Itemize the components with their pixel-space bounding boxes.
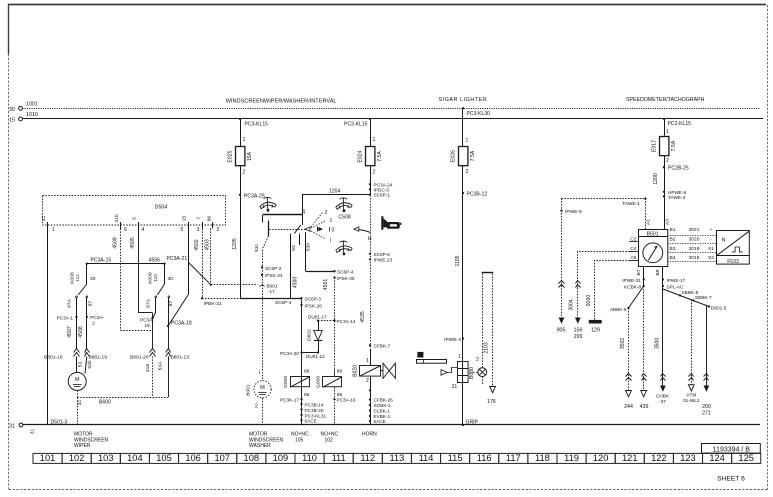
node SC6P-3 xyxy=(300,297,302,299)
svg-text:31: 31 xyxy=(30,429,36,435)
wire 439 xyxy=(643,286,645,391)
fuse E025 15A xyxy=(236,147,245,166)
svg-text:PC2-KL15: PC2-KL15 xyxy=(668,121,692,127)
pivot arrow xyxy=(305,227,310,231)
wire bus30 to fuse E026 xyxy=(462,107,464,109)
wire B9 down xyxy=(662,267,664,290)
wire IPWE-5 xyxy=(561,199,563,318)
svg-text:PC3A-25: PC3A-25 xyxy=(244,193,265,199)
svg-text:B801-20: B801-20 xyxy=(130,355,149,361)
wire to ABBK-6 xyxy=(629,286,644,308)
svg-text:G008: G008 xyxy=(316,376,322,388)
node PC3K-17 xyxy=(300,398,302,400)
svg-text:106: 106 xyxy=(185,453,201,463)
node PC3A-19 xyxy=(151,317,153,319)
wire 4535 xyxy=(370,195,372,360)
svg-text:15: 15 xyxy=(181,216,187,222)
svg-text:7.5A: 7.5A xyxy=(470,150,476,161)
svg-text:102: 102 xyxy=(325,437,334,443)
svg-text:A1: A1 xyxy=(645,219,651,225)
node PC3A-16 xyxy=(333,398,335,400)
svg-text:113: 113 xyxy=(389,453,404,463)
svg-text:116: 116 xyxy=(477,453,492,463)
switch frame xyxy=(302,195,304,225)
svg-text:D501-3: D501-3 xyxy=(51,419,68,425)
svg-text:K009: K009 xyxy=(147,272,153,284)
wire C4 to connector xyxy=(578,252,639,289)
svg-text:53b: 53b xyxy=(305,243,311,251)
fuse E026 7.5A xyxy=(459,147,468,166)
svg-text:D504: D504 xyxy=(155,204,168,210)
svg-text:123: 123 xyxy=(680,453,696,463)
svg-text:120: 120 xyxy=(593,453,609,463)
svg-text:1105: 1105 xyxy=(455,255,461,266)
svg-text:31b: 31b xyxy=(114,214,120,222)
wire 53A xyxy=(168,357,170,398)
wire 318 xyxy=(152,357,154,398)
switch position rays xyxy=(311,213,323,228)
svg-text:IPBK-31: IPBK-31 xyxy=(204,301,222,307)
wire 4505 xyxy=(138,229,140,313)
wire 4508 xyxy=(86,317,88,349)
svg-text:TAWE-3: TAWE-3 xyxy=(668,195,686,200)
svg-text:PC3-KL30: PC3-KL30 xyxy=(467,111,491,117)
connector B801-18 xyxy=(74,349,80,353)
ejector contact symbol xyxy=(441,370,447,376)
wire G008 down xyxy=(334,370,336,378)
svg-text:3020: 3020 xyxy=(689,237,700,243)
svg-text:111: 111 xyxy=(332,453,346,463)
svg-text:01-WL2: 01-WL2 xyxy=(683,398,700,403)
node TAWE-3 xyxy=(663,195,665,197)
svg-text:119: 119 xyxy=(564,453,579,463)
svg-text:109: 109 xyxy=(273,453,289,463)
svg-text:4509: 4509 xyxy=(112,237,118,248)
node PC3A-24 xyxy=(369,183,371,185)
svg-text:C4: C4 xyxy=(630,246,637,252)
svg-text:118: 118 xyxy=(535,453,550,463)
svg-text:CLBK-1: CLBK-1 xyxy=(374,409,391,414)
node PC3A-25 wiper icon xyxy=(260,197,276,209)
svg-text:PC3B-12: PC3B-12 xyxy=(467,191,488,197)
svg-text:6: 6 xyxy=(124,227,127,233)
svg-text:2: 2 xyxy=(217,227,220,233)
svg-text:4: 4 xyxy=(142,227,145,233)
svg-text:SC6P-6: SC6P-6 xyxy=(374,252,391,257)
svg-text:KCBK-8: KCBK-8 xyxy=(624,285,641,290)
svg-text:B600: B600 xyxy=(99,400,111,406)
svg-text:B001: B001 xyxy=(245,384,251,396)
svg-text:86: 86 xyxy=(337,369,343,375)
svg-text:S1: S1 xyxy=(708,246,714,252)
svg-text:1: 1 xyxy=(366,358,369,364)
wire bus15 to fuse E025 xyxy=(239,118,241,120)
wire 2103 arrow 176 xyxy=(490,387,496,393)
svg-text:B020: B020 xyxy=(352,365,358,377)
node 30 terminal xyxy=(19,106,23,110)
wire 1204 xyxy=(302,194,370,196)
wire 4503 horizontal xyxy=(211,284,258,286)
svg-text:31: 31 xyxy=(41,216,47,222)
svg-text:IPWE-31: IPWE-31 xyxy=(622,278,641,283)
svg-text:-37: -37 xyxy=(659,399,666,404)
fuse E024 7.5A xyxy=(366,147,375,166)
svg-text:GRIP: GRIP xyxy=(466,419,479,425)
svg-text:1001: 1001 xyxy=(26,102,38,108)
wiper icon C508 xyxy=(336,198,352,210)
wire B801-20 feed xyxy=(152,313,154,349)
fuse E017 7.5A xyxy=(660,137,669,156)
svg-text:IPSK-30: IPSK-30 xyxy=(337,276,355,281)
svg-text:3021: 3021 xyxy=(689,227,700,233)
svg-text:M: M xyxy=(75,377,80,383)
svg-text:9100: 9100 xyxy=(586,295,592,306)
svg-text:M: M xyxy=(260,385,265,391)
svg-text:87A: 87A xyxy=(146,298,152,307)
position arrow filled xyxy=(317,227,319,232)
svg-text:E017: E017 xyxy=(652,140,658,152)
speedometer B501 xyxy=(639,230,668,267)
svg-text:103: 103 xyxy=(98,453,114,463)
svg-text:DU01-12: DU01-12 xyxy=(306,354,325,359)
svg-text:244: 244 xyxy=(624,404,633,410)
node DU01-12 xyxy=(302,352,319,354)
svg-text:2: 2 xyxy=(476,357,479,363)
interval unit D504 xyxy=(43,196,226,226)
svg-text:B801-18: B801-18 xyxy=(44,355,63,361)
node 31 terminal xyxy=(19,423,23,427)
node SC6P-6 xyxy=(369,253,371,255)
svg-text:85: 85 xyxy=(304,392,310,398)
node IPDC-3 xyxy=(369,188,371,190)
wire dashed to pivot xyxy=(269,229,305,231)
svg-text:31: 31 xyxy=(452,384,458,390)
svg-text:IPSK-33: IPSK-33 xyxy=(265,273,283,278)
svg-text:N: N xyxy=(722,238,726,244)
wire motor to B600 xyxy=(77,390,79,397)
svg-text:110: 110 xyxy=(302,453,317,463)
svg-text:B801-13: B801-13 xyxy=(171,355,190,361)
svg-text:B7: B7 xyxy=(636,269,642,275)
svg-text:PC3A-20: PC3A-20 xyxy=(280,351,299,356)
node PC3A-2 xyxy=(86,316,88,318)
wire VTM xyxy=(691,300,693,391)
lamp in lighter xyxy=(478,368,487,377)
wiper icon lower xyxy=(336,241,352,253)
svg-text:IPWE-17: IPWE-17 xyxy=(667,278,686,283)
node CFBK-26 junction group xyxy=(369,389,371,391)
svg-text:112: 112 xyxy=(360,453,375,463)
wire pin5 to 4503 xyxy=(188,262,211,285)
wire 53b output xyxy=(305,232,307,271)
svg-text:PC2B-25: PC2B-25 xyxy=(668,166,689,172)
svg-text:3502: 3502 xyxy=(620,338,626,349)
svg-text:15: 15 xyxy=(9,118,15,124)
wire 1001 bus 30 xyxy=(22,108,760,110)
svg-text:2: 2 xyxy=(243,170,246,176)
svg-text:PC3A-16: PC3A-16 xyxy=(337,398,356,403)
svg-text:SIGAR LIGHTER: SIGAR LIGHTER xyxy=(439,97,488,103)
svg-text:1: 1 xyxy=(466,138,469,144)
svg-text:6ACE: 6ACE xyxy=(374,419,386,424)
sensor F533 xyxy=(717,231,750,265)
connector B801-19 xyxy=(85,349,90,353)
wire 3004 xyxy=(577,288,579,318)
svg-text:108: 108 xyxy=(244,453,260,463)
svg-text:1: 1 xyxy=(458,354,461,360)
wire B600 xyxy=(77,397,168,399)
svg-text:SC6P-3: SC6P-3 xyxy=(305,296,322,301)
node IPSK-20 xyxy=(300,304,302,306)
svg-text:CFBK-7: CFBK-7 xyxy=(374,344,391,349)
wire PC3A-15 node xyxy=(87,263,165,265)
svg-text:2103: 2103 xyxy=(484,342,490,353)
wire to SC6P-4 xyxy=(306,271,335,273)
svg-text:15: 15 xyxy=(301,209,307,215)
wire TAWE-1 dashed xyxy=(562,198,646,200)
svg-text:124: 124 xyxy=(709,453,725,463)
svg-text:B001: B001 xyxy=(267,283,278,288)
svg-text:122: 122 xyxy=(651,453,667,463)
svg-text:86: 86 xyxy=(206,216,212,222)
svg-text:2: 2 xyxy=(255,404,258,410)
pin 5 of D504 xyxy=(188,222,190,229)
svg-text:VTM: VTM xyxy=(686,393,696,398)
wire 200 xyxy=(706,306,708,386)
ground 129 xyxy=(589,320,602,324)
svg-text:B3: B3 xyxy=(670,246,676,252)
node PC3A-25 xyxy=(239,194,241,196)
svg-text:-17: -17 xyxy=(268,289,275,294)
svg-text:PC3K-17: PC3K-17 xyxy=(280,398,299,403)
wire output mid xyxy=(299,234,301,245)
svg-text:129: 129 xyxy=(591,328,600,334)
svg-text:4501: 4501 xyxy=(323,279,329,290)
wire 4509 xyxy=(120,229,122,331)
node SC6P-2 xyxy=(261,266,263,268)
svg-text:200: 200 xyxy=(702,404,711,410)
wire 3500 xyxy=(662,289,664,386)
svg-text:53b: 53b xyxy=(87,360,93,368)
node IPWE-23 xyxy=(369,258,371,260)
relay contact K009 xyxy=(164,264,166,284)
title block 1193394 / B xyxy=(702,444,761,454)
horn symbol at B020 xyxy=(381,370,383,372)
svg-text:1200: 1200 xyxy=(653,173,659,184)
wire B7 down xyxy=(643,267,645,287)
svg-text:87: 87 xyxy=(87,301,93,307)
svg-text:CHBK: CHBK xyxy=(656,393,670,398)
svg-text:H: H xyxy=(368,236,372,242)
wire A5 to ground xyxy=(595,261,639,320)
svg-text:PC3B-20: PC3B-20 xyxy=(305,408,324,413)
node HPWE-6 xyxy=(663,191,665,193)
connector B001-17 xyxy=(260,285,265,287)
svg-text:271: 271 xyxy=(702,410,711,416)
svg-text:110: 110 xyxy=(153,274,159,282)
svg-text:1010: 1010 xyxy=(26,112,38,118)
svg-text:105: 105 xyxy=(156,453,172,463)
pin 2 of D504 xyxy=(212,222,214,229)
svg-text:111: 111 xyxy=(75,274,81,282)
svg-text:G009: G009 xyxy=(283,376,289,388)
wire 1200 xyxy=(664,156,666,230)
svg-text:4503: 4503 xyxy=(204,239,210,250)
node SC6P-4 xyxy=(333,270,335,272)
svg-text:B9: B9 xyxy=(655,269,661,275)
svg-text:PC3A-: PC3A- xyxy=(90,315,104,320)
svg-text:I: I xyxy=(330,238,331,244)
svg-text:A3: A3 xyxy=(664,219,670,225)
wire B020 to bus 31 xyxy=(370,376,372,425)
svg-text:318: 318 xyxy=(145,364,151,372)
svg-text:4500: 4500 xyxy=(292,277,298,288)
wire 53b xyxy=(85,357,87,374)
svg-text:WINDSCREENWIPER/WASHER/INTERVA: WINDSCREENWIPER/WASHER/INTERVAL xyxy=(226,99,337,105)
svg-text:PC3A-15: PC3A-15 xyxy=(91,258,112,264)
wire IPBK-31 xyxy=(202,298,240,300)
svg-text:125: 125 xyxy=(738,453,754,463)
svg-text:2: 2 xyxy=(92,320,95,325)
pin 6 of D504 xyxy=(120,222,122,229)
node PC3B-14 group xyxy=(300,403,302,405)
wire 4507 xyxy=(76,317,78,349)
svg-text:DU01-17: DU01-17 xyxy=(308,315,327,320)
horn icon H xyxy=(381,216,401,230)
svg-text:WIPER: WIPER xyxy=(74,443,91,449)
contact blade xyxy=(294,225,300,234)
pin 4 of D504 xyxy=(138,222,140,229)
svg-text:6ACE: 6ACE xyxy=(305,418,317,423)
coordinate ruler 101-125 xyxy=(33,453,62,463)
svg-text:PC3-KL15: PC3-KL15 xyxy=(245,121,269,127)
svg-text:1205: 1205 xyxy=(232,238,238,249)
wire diode branch xyxy=(318,320,335,322)
wire 53 xyxy=(76,357,78,373)
svg-text:D601-5: D601-5 xyxy=(711,305,727,310)
svg-text:905: 905 xyxy=(557,328,566,334)
svg-text:E024: E024 xyxy=(358,150,364,162)
interval contact to horn wire xyxy=(354,227,359,231)
svg-text:TAWE-1: TAWE-1 xyxy=(622,201,640,207)
wire 1105 xyxy=(462,166,464,425)
svg-text:4535: 4535 xyxy=(360,311,366,322)
svg-text:86: 86 xyxy=(304,369,310,375)
svg-text:IPWE-4: IPWE-4 xyxy=(444,337,461,343)
svg-text:IPSK-20: IPSK-20 xyxy=(305,303,323,308)
wire bus 31 xyxy=(23,424,760,426)
svg-text:2: 2 xyxy=(325,210,328,216)
svg-text:PC3A-1: PC3A-1 xyxy=(57,315,74,320)
node PC3A-14 xyxy=(333,319,335,321)
svg-text:439: 439 xyxy=(640,404,649,410)
svg-text:+: + xyxy=(710,228,713,233)
svg-text:4506: 4506 xyxy=(149,258,160,264)
wire washer to bus xyxy=(262,398,264,425)
wire 4503 xyxy=(210,229,212,285)
svg-text:B801-19: B801-19 xyxy=(89,355,108,361)
svg-text:102: 102 xyxy=(69,453,85,463)
svg-text:104: 104 xyxy=(127,453,143,463)
svg-text:30: 30 xyxy=(9,107,15,113)
svg-text:PC3A-14: PC3A-14 xyxy=(337,319,356,324)
svg-text:107: 107 xyxy=(214,453,230,463)
svg-text:B1: B1 xyxy=(670,227,676,233)
svg-text:3019: 3019 xyxy=(689,246,700,252)
wire 4502 xyxy=(202,229,204,299)
svg-text:101: 101 xyxy=(40,453,56,463)
svg-text:1204: 1204 xyxy=(329,188,340,194)
svg-text:156: 156 xyxy=(574,328,583,334)
svg-text:E025: E025 xyxy=(228,150,234,162)
svg-text:SC6P-4: SC6P-4 xyxy=(275,300,292,305)
svg-text:176: 176 xyxy=(487,399,496,405)
svg-text:30: 30 xyxy=(90,276,96,282)
wire pin5 15 xyxy=(188,229,190,296)
svg-text:1193394 / B: 1193394 / B xyxy=(713,446,751,453)
pin 3 of D504 xyxy=(202,222,204,229)
wire B801-13 feed xyxy=(168,326,170,349)
svg-text:1: 1 xyxy=(243,137,246,143)
wire 53a down xyxy=(262,236,268,250)
wire pin5 diagonal to PC3A-18 xyxy=(168,295,188,326)
node SC6P-1 xyxy=(369,193,371,195)
svg-text:53A: 53A xyxy=(158,361,164,370)
wire SC6P-4 horizontal xyxy=(240,298,302,300)
svg-text:3500: 3500 xyxy=(655,338,661,349)
svg-text:15A: 15A xyxy=(247,151,253,161)
node PC3A-1 xyxy=(75,316,77,318)
svg-text:299: 299 xyxy=(574,334,583,340)
svg-text:115: 115 xyxy=(448,453,463,463)
svg-text:3: 3 xyxy=(197,227,200,233)
node 15 terminal xyxy=(19,117,23,121)
svg-text:IPWE-23: IPWE-23 xyxy=(374,258,393,263)
svg-text:C508: C508 xyxy=(339,215,351,221)
node CFBK-7 xyxy=(369,344,371,346)
svg-text:19: 19 xyxy=(144,323,150,328)
svg-text:SBBK-7: SBBK-7 xyxy=(695,295,712,300)
diode D602 xyxy=(318,321,320,331)
svg-text:121: 121 xyxy=(622,453,638,463)
svg-text:PC3B-14: PC3B-14 xyxy=(305,402,324,407)
wire bus15 to fuse E017 xyxy=(663,118,665,120)
contact 53a bar xyxy=(268,221,270,237)
svg-text:4502: 4502 xyxy=(194,239,200,250)
svg-text:PC3A-21: PC3A-21 xyxy=(167,256,188,262)
node IPSK-33 xyxy=(261,274,263,276)
svg-text:1: 1 xyxy=(258,369,261,374)
svg-text:B2: B2 xyxy=(670,237,676,243)
connector B801-13 xyxy=(166,349,171,353)
svg-text:105: 105 xyxy=(295,437,304,443)
svg-text:SHEET 6: SHEET 6 xyxy=(717,475,745,482)
wire 53 output xyxy=(290,234,292,299)
lighter socket dashed outline xyxy=(482,272,494,274)
svg-text:7.5A: 7.5A xyxy=(377,151,383,162)
motor windscreen wiper M xyxy=(68,372,86,390)
svg-text:87A: 87A xyxy=(66,298,72,307)
svg-text:ABBK-6: ABBK-6 xyxy=(610,307,627,312)
svg-text:7.5A: 7.5A xyxy=(671,140,677,151)
svg-text:F533: F533 xyxy=(727,259,739,265)
svg-text:E026: E026 xyxy=(451,150,457,162)
node PC3B-12 xyxy=(462,192,464,194)
svg-text:1: 1 xyxy=(52,227,55,233)
svg-text:K008: K008 xyxy=(70,272,76,284)
svg-text:53c: 53c xyxy=(254,244,260,252)
wire 1010 bus 15 xyxy=(22,118,763,120)
